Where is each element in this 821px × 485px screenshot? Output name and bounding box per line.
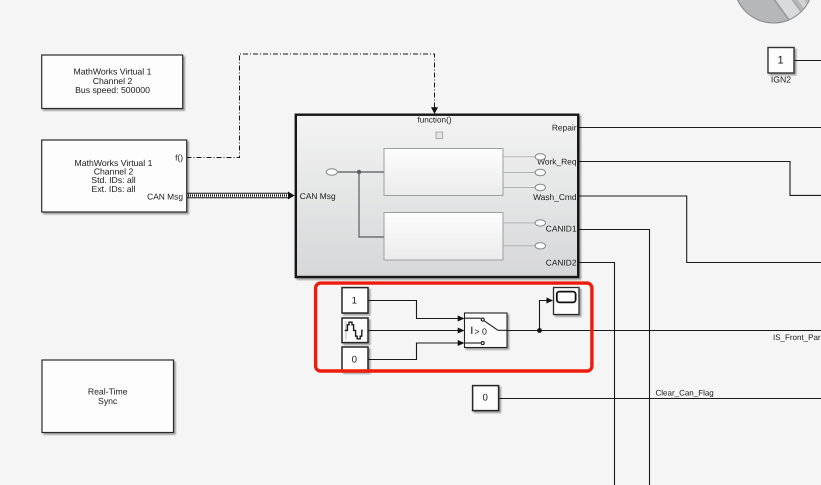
- svg-text:function(): function(): [417, 116, 451, 125]
- svg-text:0: 0: [352, 355, 358, 366]
- svg-text:IGN2: IGN2: [771, 75, 791, 85]
- svg-text:CANID2: CANID2: [546, 258, 577, 268]
- svg-text:CAN Msg: CAN Msg: [300, 191, 336, 201]
- svg-text:f(): f(): [175, 152, 183, 162]
- svg-text:Sync: Sync: [98, 396, 118, 406]
- svg-text:Clear_Can_Flag: Clear_Can_Flag: [656, 388, 714, 397]
- svg-text:1: 1: [352, 296, 357, 307]
- svg-text:CAN Msg: CAN Msg: [147, 191, 183, 201]
- svg-text:IS_Front_Park: IS_Front_Park: [773, 333, 821, 342]
- svg-text:Repair: Repair: [552, 122, 577, 132]
- svg-text:> 0: > 0: [474, 326, 487, 336]
- svg-text:Ext. IDs: all: Ext. IDs: all: [92, 184, 136, 194]
- svg-text:Wash_Cmd: Wash_Cmd: [533, 192, 577, 202]
- svg-text:CANID1: CANID1: [546, 223, 577, 233]
- svg-text:1: 1: [778, 55, 784, 67]
- svg-text:Bus speed: 500000: Bus speed: 500000: [75, 85, 150, 95]
- svg-text:0: 0: [483, 393, 489, 404]
